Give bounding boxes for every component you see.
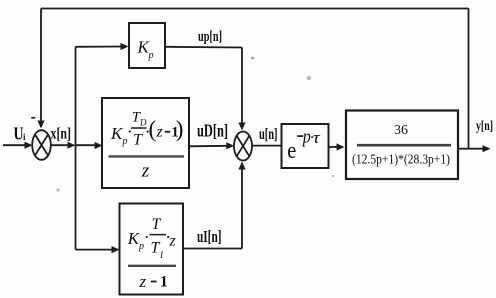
node uD[n] (197, 121, 228, 141)
svg-text:y[n]: y[n] (476, 118, 493, 133)
wire plant output to y[n] (458, 145, 491, 152)
svg-text:p: p (148, 50, 154, 61)
svg-text:T: T (133, 132, 143, 149)
svg-text:z: z (141, 160, 150, 181)
wire branch to Kp block (76, 43, 129, 50)
wire S2 to delay block (252, 145, 281, 147)
block I (integral) Kp*(T/TI)*z/(z-1) (120, 204, 184, 295)
svg-text:U: U (14, 124, 24, 144)
node U (input label) (14, 124, 27, 144)
wire branch to I block (76, 246, 120, 253)
svg-text:z: z (156, 124, 164, 141)
svg-text:1: 1 (160, 274, 168, 291)
svg-text:z: z (169, 233, 177, 250)
block Kp (proportional) (129, 23, 165, 68)
svg-text:36: 36 (394, 123, 408, 138)
svg-text:I: I (159, 250, 164, 260)
svg-text:T: T (151, 240, 161, 257)
svg-text:uI[n]: uI[n] (197, 227, 222, 246)
wire branch vertical (to P and I paths) (75, 47, 77, 250)
svg-text:i: i (23, 132, 26, 142)
block D (derivative) Kp*(TD/T)*(z-1)/z (102, 98, 189, 188)
node u[n] (259, 126, 278, 143)
minus sign at S1 (31, 117, 35, 119)
node up[n] (198, 29, 222, 45)
wire feedback from output to S1 (37, 9, 468, 149)
wire S1 to middle block with branch arrows (51, 142, 103, 150)
svg-text:u[n]: u[n] (259, 126, 278, 143)
scan speck artifacts (56, 57, 334, 192)
svg-text:(: ( (149, 117, 157, 142)
summing junction S1 (32, 130, 51, 160)
svg-text:x[n]: x[n] (51, 126, 72, 143)
svg-text:τ: τ (313, 128, 321, 147)
svg-text:up[n]: up[n] (198, 29, 222, 45)
wire delay to plant (329, 143, 345, 150)
node y[n] (476, 118, 493, 133)
svg-text:·: · (145, 229, 149, 244)
block plant 36/((12.5p+1)*(28.3p+1)) (346, 111, 458, 180)
svg-text:(12.5p+1)*(28.3p+1): (12.5p+1)*(28.3p+1) (352, 153, 450, 168)
svg-text:uD[n]: uD[n] (197, 121, 228, 141)
svg-text:T: T (152, 216, 162, 233)
svg-text:·: · (128, 124, 132, 139)
block delay e^-p*tau (282, 124, 329, 168)
svg-text:p: p (138, 241, 144, 252)
summing junction S2 (234, 132, 252, 161)
svg-text:e: e (287, 138, 296, 164)
wire D block output to S2 (189, 142, 234, 149)
node uI[n] (197, 227, 222, 246)
wire input U to summing junction (3, 142, 33, 149)
svg-text:z: z (139, 272, 147, 291)
node x[n] (51, 126, 72, 143)
svg-text:): ) (176, 117, 184, 142)
wire I block output to S2 (183, 162, 246, 249)
wire Kp output to S2 (up[n] path) (165, 47, 246, 131)
